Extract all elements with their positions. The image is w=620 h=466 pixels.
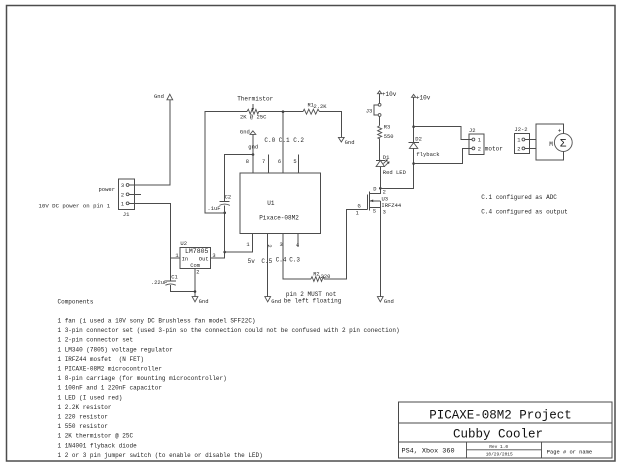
- wire 5v rail to thermistor: [205, 112, 247, 213]
- svg-text:Gnd: Gnd: [271, 298, 281, 305]
- svg-text:1: 1: [517, 138, 520, 144]
- svg-text:1 IRFZ44 mosfet (N FET): 1 IRFZ44 mosfet (N FET): [58, 356, 144, 363]
- svg-text:1 550 resistor: 1 550 resistor: [58, 423, 109, 430]
- wire bottom rail to J2 pin 2: [414, 148, 472, 163]
- svg-text:power: power: [99, 186, 116, 193]
- pin 4 stub: [297, 234, 299, 248]
- components list: [58, 299, 400, 459]
- svg-text:2K @ 25C: 2K @ 25C: [240, 113, 267, 120]
- wire R1 to ground: [320, 112, 342, 138]
- svg-text:be left floating: be left floating: [284, 298, 342, 305]
- svg-text:C.3: C.3: [289, 256, 300, 263]
- capacitor C2: [207, 155, 253, 213]
- junction thermistor/R1/C.1: [282, 110, 285, 113]
- svg-text:D2: D2: [415, 136, 422, 143]
- svg-text:J2: J2: [469, 127, 476, 134]
- svg-text:5v: 5v: [248, 258, 256, 265]
- junction gnd rail / C2: [252, 153, 255, 156]
- svg-text:+: +: [558, 127, 562, 134]
- wire U2 Out to 5v rail: [211, 252, 225, 258]
- svg-text:Gnd: Gnd: [154, 93, 164, 100]
- connector J1: [119, 179, 135, 218]
- svg-text:1 2-pin connector set: 1 2-pin connector set: [58, 337, 134, 344]
- wire D1 to drain: [379, 167, 381, 189]
- connector J2: [469, 127, 484, 154]
- svg-text:PS4, Xbox 360: PS4, Xbox 360: [402, 447, 455, 455]
- svg-text:flyback: flyback: [416, 151, 440, 158]
- svg-text:2.2K: 2.2K: [314, 104, 328, 110]
- svg-text:10/29/2015: 10/29/2015: [486, 452, 513, 458]
- thermistor RT1: [237, 96, 273, 121]
- svg-text:1 3-pin connector set (used 3-: 1 3-pin connector set (used 3-pin so the…: [58, 327, 400, 334]
- svg-text:U1: U1: [267, 200, 275, 207]
- svg-text:5: 5: [293, 159, 296, 165]
- svg-text:1: 1: [356, 211, 359, 217]
- pin 5 stub: [297, 155, 299, 173]
- svg-text:Gnd: Gnd: [384, 298, 394, 305]
- svg-text:+10v: +10v: [416, 94, 431, 101]
- svg-text:C.4 configured as output: C.4 configured as output: [481, 209, 567, 216]
- svg-text:1 2K thermistor @ 25C: 1 2K thermistor @ 25C: [58, 433, 134, 440]
- svg-text:Com: Com: [190, 262, 201, 269]
- svg-text:In: In: [182, 255, 189, 262]
- wire R3 to D1: [379, 139, 381, 161]
- junction 5v rail: [223, 251, 226, 254]
- wire +10v to J3: [379, 94, 381, 104]
- svg-text:C.0 C.1 C.2: C.0 C.1 C.2: [264, 137, 304, 144]
- ground Gnd (below U3 source): [377, 297, 393, 306]
- wire J2-2 pin 1 to fan: [525, 139, 536, 141]
- svg-text:6: 6: [278, 159, 281, 165]
- svg-text:Gnd: Gnd: [240, 128, 250, 135]
- svg-text:4: 4: [296, 242, 299, 248]
- svg-text:M: M: [549, 141, 553, 148]
- connector J2-2: [514, 126, 529, 153]
- transistor U3 IRFZ44: [356, 187, 402, 297]
- svg-text:550: 550: [384, 134, 394, 140]
- svg-text:C.1 configured as ADC: C.1 configured as ADC: [481, 194, 557, 201]
- svg-text:J1: J1: [123, 211, 130, 218]
- svg-text:Components: Components: [58, 299, 94, 306]
- resistor R1 2.2K: [303, 103, 327, 115]
- wire top rail to J2 pin 1: [414, 127, 472, 140]
- power +10v (motor branch): [412, 94, 431, 101]
- wire J1 pin 2 stub: [129, 193, 141, 195]
- svg-text:LM7805: LM7805: [185, 248, 209, 255]
- svg-text:Gnd: Gnd: [345, 139, 355, 146]
- wire thermistor to R1: [259, 111, 303, 113]
- svg-text:8: 8: [246, 159, 249, 165]
- svg-text:R2: R2: [313, 272, 319, 278]
- svg-text:1 fan (i used a 10V sony DC Br: 1 fan (i used a 10V sony DC Brushless fa…: [58, 318, 256, 325]
- svg-text:Pixace-08M2: Pixace-08M2: [259, 215, 299, 222]
- svg-text:7: 7: [262, 159, 265, 165]
- svg-text:C.5: C.5: [261, 258, 272, 265]
- wire J1 pin 3 to Gnd: [129, 100, 170, 185]
- svg-text:2: 2: [121, 193, 124, 199]
- svg-text:10V DC power on pin 1: 10V DC power on pin 1: [39, 203, 111, 210]
- wire J2-2 pin 2 to fan: [525, 147, 536, 149]
- svg-text:C2: C2: [225, 194, 232, 201]
- wire D2 to bottom rail: [413, 148, 415, 163]
- svg-text:motor: motor: [485, 146, 503, 153]
- svg-text:S: S: [373, 208, 376, 214]
- wire U1 pin 2 to ground: [267, 234, 269, 297]
- junction C1/Com: [194, 290, 197, 293]
- svg-text:U2: U2: [180, 240, 187, 247]
- svg-text:Red LED: Red LED: [383, 169, 407, 176]
- wire J1 pin 1 to regulator In: [129, 203, 171, 281]
- motor M1 fan: [536, 124, 572, 160]
- wire In branch: [171, 257, 180, 259]
- jumper J3: [366, 103, 381, 116]
- svg-text:C.4: C.4: [276, 256, 287, 263]
- svg-text:2: 2: [517, 147, 520, 153]
- svg-text:D: D: [373, 187, 376, 193]
- ground Gnd (below U2): [192, 297, 208, 306]
- svg-text:Thermistor: Thermistor: [237, 96, 273, 103]
- svg-text:1 LED (I used red): 1 LED (I used red): [58, 394, 123, 401]
- svg-text:Σ: Σ: [560, 139, 567, 151]
- svg-text:Page # or name: Page # or name: [547, 449, 592, 455]
- svg-text:1: 1: [121, 202, 124, 208]
- svg-text:+10v: +10v: [382, 91, 397, 98]
- svg-text:G: G: [358, 203, 361, 209]
- svg-text:R3: R3: [384, 125, 390, 131]
- svg-text:Gnd: Gnd: [199, 298, 209, 305]
- wire 5v rail up to C2 junction: [224, 213, 226, 252]
- wire U1 pin 3 to R2: [283, 234, 311, 280]
- svg-text:.1uF: .1uF: [207, 205, 220, 212]
- wire Gnd to U1 pin 8: [252, 134, 254, 173]
- svg-text:1 2 or 3 pin jumper switch (to: 1 2 or 3 pin jumper switch (to enable or…: [58, 452, 263, 459]
- junction drain: [379, 187, 382, 190]
- svg-text:1 100nF and 1 220nF capacitor: 1 100nF and 1 220nF capacitor: [58, 385, 163, 392]
- svg-text:3: 3: [280, 242, 283, 248]
- diode D2 flyback: [408, 136, 440, 158]
- svg-text:1: 1: [246, 242, 249, 248]
- regulator U2 LM7805: [175, 240, 215, 276]
- svg-text:Cubby Cooler: Cubby Cooler: [453, 428, 543, 442]
- svg-text:J2-2: J2-2: [514, 126, 527, 133]
- svg-text:2: 2: [478, 147, 481, 153]
- capacitor C1: [151, 274, 195, 292]
- svg-text:.22uF: .22uF: [151, 279, 168, 286]
- wire 5v to U1 pin 1: [225, 234, 253, 253]
- resistor R2 220: [311, 272, 330, 282]
- junction C2 bottom: [223, 212, 226, 215]
- svg-text:1: 1: [175, 253, 178, 259]
- svg-text:C1: C1: [171, 274, 178, 281]
- wire R2 to gate: [324, 209, 367, 279]
- svg-text:2: 2: [266, 244, 272, 247]
- wire J3 to R3: [379, 116, 381, 125]
- svg-text:Out: Out: [199, 255, 209, 262]
- svg-text:3: 3: [121, 183, 124, 189]
- svg-text:1 LM340 (7805) voltage regulat: 1 LM340 (7805) voltage regulator: [58, 346, 174, 353]
- svg-text:1 220 resistor: 1 220 resistor: [58, 414, 109, 421]
- microcontroller U1 Pixace-08M2: [240, 173, 320, 234]
- title block: [399, 402, 613, 458]
- junction motor top rail: [412, 125, 415, 128]
- wire drain to flyback rail: [380, 164, 413, 189]
- ground Gnd (below U1 pin 2): [265, 297, 281, 306]
- svg-text:1 1N4001 flyback diode: 1 1N4001 flyback diode: [58, 442, 138, 449]
- power +10v (LED branch): [378, 91, 397, 98]
- pin 7 stub: [267, 155, 269, 173]
- ground Gnd (above U1 pin 8): [240, 128, 256, 135]
- wire U2 Com to ground: [194, 269, 196, 297]
- svg-text:1 2.2K resistor: 1 2.2K resistor: [58, 404, 112, 411]
- svg-text:J3: J3: [366, 107, 373, 114]
- wire junction to U1 pin 6: [282, 112, 284, 173]
- svg-text:gnd: gnd: [248, 144, 258, 151]
- svg-text:PICAXE-08M2 Project: PICAXE-08M2 Project: [429, 409, 572, 423]
- svg-text:1 8-pin carriage (for mounting: 1 8-pin carriage (for mounting microcont…: [58, 375, 227, 382]
- junction motor bottom rail: [412, 162, 415, 165]
- note pin 2 floating: [284, 291, 342, 305]
- wire +10v down through flyback: [413, 97, 415, 142]
- svg-text:3: 3: [383, 209, 386, 215]
- svg-text:Rev 1.0: Rev 1.0: [489, 444, 508, 450]
- ground Gnd (top left, up arrow): [154, 93, 173, 100]
- diode D1 Red LED: [376, 154, 407, 176]
- svg-text:IRFZ44: IRFZ44: [381, 202, 402, 209]
- svg-text:1: 1: [478, 138, 481, 144]
- ground Gnd (right of R1, down arrow): [338, 137, 354, 145]
- resistor R3 550: [378, 125, 394, 140]
- svg-text:2: 2: [196, 270, 199, 276]
- svg-text:1 PICAXE-08M2 microcontroller: 1 PICAXE-08M2 microcontroller: [58, 366, 163, 373]
